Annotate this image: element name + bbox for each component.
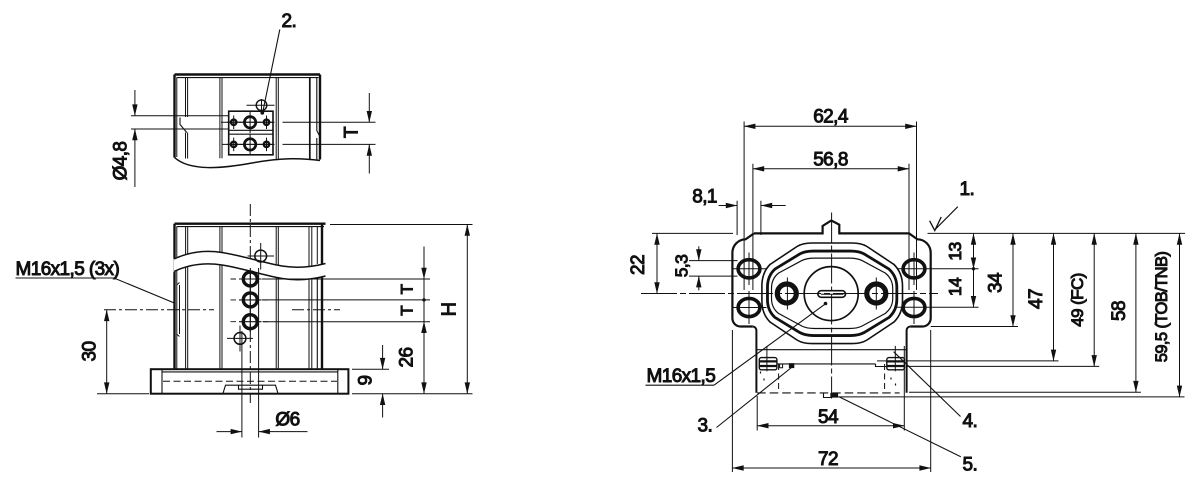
svg-text:26: 26: [397, 348, 418, 368]
notch in plate: [780, 364, 783, 368]
label 1. with leader: [930, 179, 975, 231]
extension line clamp centre right: [907, 360, 1059, 362]
bolt hole bottom-left: [732, 291, 767, 324]
hidden clamp outline dashed verticals: [779, 364, 885, 393]
dimension 62,4: [744, 107, 916, 128]
svg-text:59,5 (TOB/TNB): 59,5 (TOB/TNB): [1153, 252, 1171, 363]
body front face joint line: [756, 349, 906, 351]
stud end (target of label 3): [789, 363, 794, 368]
large hole 3 bottom view: [231, 315, 271, 329]
extension line 58 right: [909, 391, 1141, 393]
svg-text:34: 34: [986, 272, 1007, 293]
port hole left: [777, 278, 796, 310]
bolt hole top-left: [732, 253, 767, 286]
dimension 59,5 (TOB/TNB): [1153, 233, 1180, 397]
dimension 30: [80, 310, 107, 394]
clamp plate top lines: [877, 360, 886, 362]
svg-text:9: 9: [356, 375, 377, 385]
dimension 30 extension line: [97, 393, 149, 395]
large hole 2 bottom view: [231, 293, 271, 307]
gauge block top view: [229, 111, 273, 155]
svg-text:56,8: 56,8: [813, 150, 848, 171]
left wall port notch top view: [180, 118, 187, 133]
break wave upper line: [174, 251, 326, 267]
svg-text:M16x1,5: M16x1,5: [647, 366, 716, 387]
body outline bottom view: [175, 224, 326, 370]
central boss outer outline: [762, 243, 903, 344]
svg-text:T: T: [398, 284, 417, 294]
leader and label 2.: [260, 11, 296, 115]
svg-text:5,3: 5,3: [672, 255, 692, 278]
large hole row1: [240, 112, 261, 134]
dimension H: [439, 225, 468, 394]
dimension H extension lines: [330, 225, 473, 394]
bottom tab filled part: [831, 393, 838, 397]
svg-text:72: 72: [818, 449, 838, 470]
svg-text:2.: 2.: [282, 11, 297, 32]
body outline top view: [175, 75, 321, 161]
dimension 34: [986, 233, 1014, 326]
svg-text:T: T: [398, 306, 417, 316]
side port on left wall (target of M16 label): [177, 283, 180, 337]
dimension Ø6 extension lines: [242, 268, 259, 438]
bottom tab outline (target of label 5): [824, 393, 831, 398]
dimension 72 extension lines: [732, 330, 930, 472]
dimension 49 (FC): [1068, 233, 1094, 366]
svg-text:47: 47: [1026, 289, 1047, 309]
boss seal groove (thick): [767, 251, 896, 336]
top reference line left extension: [652, 232, 733, 234]
centre solid line through holes: [249, 268, 251, 332]
label 4. with leader: [894, 352, 978, 432]
extension line flange bottom right: [931, 326, 1018, 328]
large hole row2: [240, 134, 261, 156]
vertical centreline right view: [831, 213, 833, 399]
break wave bottom of top view: [175, 158, 321, 168]
svg-text:58: 58: [1109, 301, 1130, 321]
dimension 5,3: [672, 246, 699, 290]
centre recess in base: [223, 385, 278, 394]
top small hole bottom view: [248, 243, 275, 270]
port centreline right (dash-dot): [292, 309, 340, 311]
small hole row1 right: [260, 116, 273, 130]
centre spigot circle: [804, 267, 858, 321]
dimension 8,1 extension lines: [737, 201, 761, 235]
bolt hole top-right: [903, 253, 925, 286]
svg-text:8,1: 8,1: [692, 187, 717, 208]
dimension 26: [397, 322, 425, 394]
label M16x1,5 (3x) with leader: [16, 259, 176, 304]
dimension 22: [628, 233, 657, 293]
vertical centreline bottom view: [249, 204, 251, 403]
pump body sides below flange: [753, 327, 910, 393]
dimension 47: [1026, 233, 1054, 361]
break wave lower line: [174, 264, 326, 280]
svg-text:Ø4,8: Ø4,8: [111, 142, 132, 181]
boss inner outline: [772, 258, 893, 328]
dimension Ø4,8: [111, 90, 135, 187]
dimension 5,3 extension lines: [689, 261, 738, 277]
svg-text:30: 30: [80, 342, 101, 362]
right wall port notch top view: [317, 124, 321, 139]
svg-text:5.: 5.: [963, 455, 978, 476]
top port circle (target of label 2): [247, 99, 275, 115]
large hole 1 bottom view: [231, 272, 271, 286]
block hole row line 2: [222, 143, 275, 145]
port hole right: [867, 278, 886, 310]
svg-text:14: 14: [945, 277, 965, 296]
dimension 62,4 extension lines: [744, 122, 916, 291]
bolt hole bottom-right: [903, 291, 925, 324]
extension line hole row 1 right: [897, 268, 979, 270]
svg-text:13: 13: [945, 242, 965, 260]
svg-text:54: 54: [818, 407, 839, 428]
dimension 56,8: [753, 150, 909, 171]
svg-text:H: H: [439, 303, 461, 317]
dimension T (top view) extension lines: [283, 122, 376, 144]
small hole row2 right: [260, 138, 273, 152]
dimension 72: [732, 449, 930, 470]
right clamp screw: [887, 346, 905, 371]
flange outline with top tab: [732, 221, 930, 327]
base flange outline: [151, 369, 349, 394]
svg-text:M16x1,5 (3x): M16x1,5 (3x): [16, 259, 120, 280]
block hole row line 1: [221, 121, 275, 123]
dimension 58: [1109, 233, 1136, 392]
svg-text:1.: 1.: [960, 179, 975, 200]
dimension chain T T: [398, 247, 426, 335]
label 3. with leader: [698, 368, 792, 437]
dimension 9: [356, 345, 383, 418]
dimension Ø6: [217, 410, 308, 432]
dimension 9 extension line: [352, 368, 389, 370]
hidden slot line in base (dashed): [163, 380, 337, 382]
recess tab: [239, 385, 263, 389]
bottom small hole bottom view: [227, 326, 253, 352]
small hole row1 left: [227, 116, 240, 130]
dimension 54: [757, 407, 904, 428]
svg-text:3.: 3.: [698, 416, 713, 437]
svg-text:4.: 4.: [963, 411, 978, 432]
centre slot edges top view: [220, 78, 278, 159]
svg-text:Ø6: Ø6: [275, 410, 299, 431]
left clamp screw: [759, 346, 777, 371]
port centreline left (dash-dot): [104, 309, 214, 311]
svg-text:49 (FC): 49 (FC): [1068, 273, 1087, 326]
label 5. with leader: [839, 397, 977, 476]
dimension 54 extension lines: [757, 346, 904, 431]
label M16x1,5 with leader: [646, 302, 828, 387]
horizontal centreline right view: [641, 293, 938, 295]
svg-text:22: 22: [628, 255, 649, 275]
break wave band bottom view: [174, 251, 326, 279]
hidden line dots: [761, 372, 896, 386]
top reference line right extension: [928, 232, 1186, 234]
small hole row2 left: [227, 138, 240, 152]
dimension 56,8 extension lines: [753, 164, 909, 290]
extension line 59,5 right: [835, 396, 1184, 398]
dimension T (top view): [342, 93, 370, 174]
shaft key slot: [818, 291, 846, 298]
svg-text:T: T: [342, 126, 363, 138]
T T extension lines right: [262, 279, 430, 322]
dimension chain 13 / 14: [945, 233, 975, 307]
svg-text:62,4: 62,4: [813, 107, 849, 128]
extension line 49 right: [907, 365, 1100, 367]
dimension Ø4,8 extension lines: [131, 116, 229, 129]
hidden body bottom edge dashed: [757, 392, 899, 394]
extension line hole row 2 right: [897, 306, 979, 308]
dimension 8,1: [692, 187, 785, 208]
